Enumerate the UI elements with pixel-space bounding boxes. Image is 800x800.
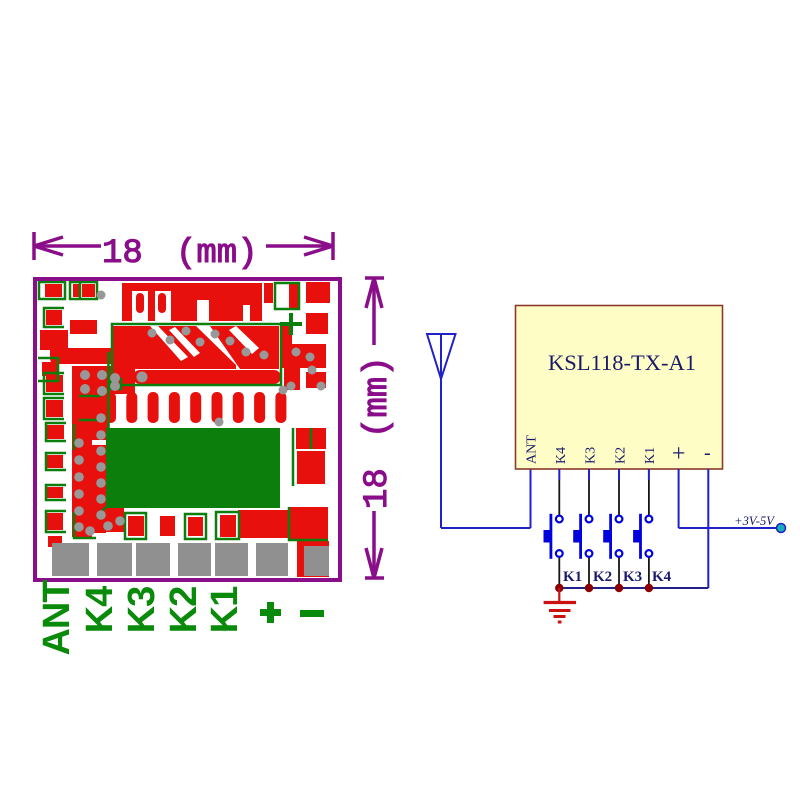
svg-text:+3V-5V: +3V-5V	[734, 514, 775, 528]
svg-text:K4: K4	[652, 569, 672, 585]
svg-text:K4: K4	[79, 586, 121, 633]
svg-text:ANT: ANT	[36, 580, 78, 656]
svg-text:18: 18	[359, 468, 397, 509]
svg-text:K2: K2	[593, 569, 612, 585]
svg-text:ANT: ANT	[525, 435, 540, 464]
svg-text:18: 18	[102, 235, 143, 273]
svg-text:(mm): (mm)	[359, 356, 397, 438]
svg-text:K1: K1	[563, 569, 582, 585]
svg-text:(mm): (mm)	[176, 235, 258, 273]
svg-text:KSL118-TX-A1: KSL118-TX-A1	[548, 350, 696, 375]
svg-text:K1: K1	[643, 447, 658, 464]
svg-text:K4: K4	[554, 447, 569, 464]
svg-text:+: +	[672, 441, 686, 467]
svg-text:K2: K2	[163, 587, 205, 634]
svg-text:-: -	[704, 442, 711, 464]
svg-text:K3: K3	[623, 569, 642, 585]
svg-text:K3: K3	[121, 587, 163, 634]
svg-text:K2: K2	[613, 447, 628, 464]
svg-text:K1: K1	[204, 586, 246, 633]
svg-text:K3: K3	[584, 447, 599, 464]
